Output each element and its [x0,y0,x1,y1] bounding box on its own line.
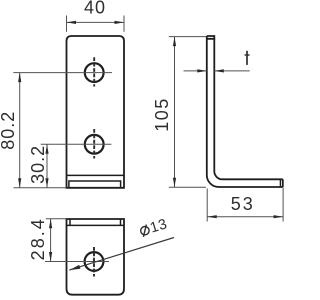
side view vertical leg outer line + outer bend + bottom line [207,36,283,187]
dim 28.4 top extension [46,218,67,220]
front view plate outline [67,36,125,188]
dim 53 right extension [282,188,284,222]
side view right end cap [282,179,284,187]
dim 53 dimension line [207,216,283,218]
arrow 80.2 top [18,73,21,83]
arrow 80.2 bottom [18,178,21,188]
dim 40 dimension line [67,21,125,23]
dim 40 extension line left [66,16,68,32]
dim 105 dimension line [174,37,176,188]
hole H3 circle [85,252,104,271]
bottom view body outline [67,219,125,295]
arrow 40 left [67,21,77,24]
svg-text:80.2: 80.2 [0,111,18,150]
svg-text:53: 53 [231,194,255,214]
arrow 53 right [274,215,284,218]
dim 40 extension line right [123,16,125,32]
svg-text:40: 40 [84,0,106,18]
hole H1 vertical center mark [93,57,95,86]
arrow 105 bottom [173,178,176,188]
arrow 30.2 top [45,144,48,154]
dim 105 bottom extension [169,186,206,188]
front view fold line [67,174,125,176]
arrow 30.2 bottom [45,178,48,188]
hole H2 horizontal centerline (also 30.2 extension) [41,143,112,145]
arrow 28.4 top [49,219,52,229]
side view vertical leg inner line + inner bend + leg top line [214,39,282,180]
dia 13 leader line [69,238,174,271]
arrow 105 top [173,37,176,47]
arrow t right [214,69,224,72]
arrow 28.4 bottom [49,252,52,262]
side view right end inner line [279,179,281,187]
label dia symbol [141,225,149,237]
arrow dia13 leader [69,265,80,270]
svg-text:28.4: 28.4 [28,217,48,260]
dim 28.4 dimension line [50,219,52,262]
hole H2 vertical center mark [93,129,95,159]
hole H3 horizontal centerline (28.4 extension) [45,261,109,263]
bottom extension line (80.2/30.2) [14,187,67,189]
bottom view band inner vertical right [120,219,122,225]
front view flange end band [69,181,121,188]
bottom view band inner vertical left [69,219,71,225]
label t [245,51,250,65]
hole H1 circle [85,63,104,82]
svg-text:105: 105 [152,97,172,132]
arrow 40 right [115,21,125,24]
hole H3 vertical center mark [93,247,95,277]
dim 80.2 dimension line [19,73,21,188]
arrow t left [197,69,207,72]
svg-text:30.2: 30.2 [28,145,48,184]
bottom view band bottom line [67,224,125,226]
side view top end cap [207,36,215,39]
dim 53 left extension [206,189,208,222]
hole H1 horizontal centerline (also 80.2 extension) [13,72,112,74]
dim 105 top extension [169,36,206,38]
dim t left arrow line [184,70,207,72]
dim 30.2 dimension line [46,144,48,188]
hole H2 circle [85,135,104,154]
arrow 53 left [207,215,217,218]
dim t right arrow line [214,70,249,72]
